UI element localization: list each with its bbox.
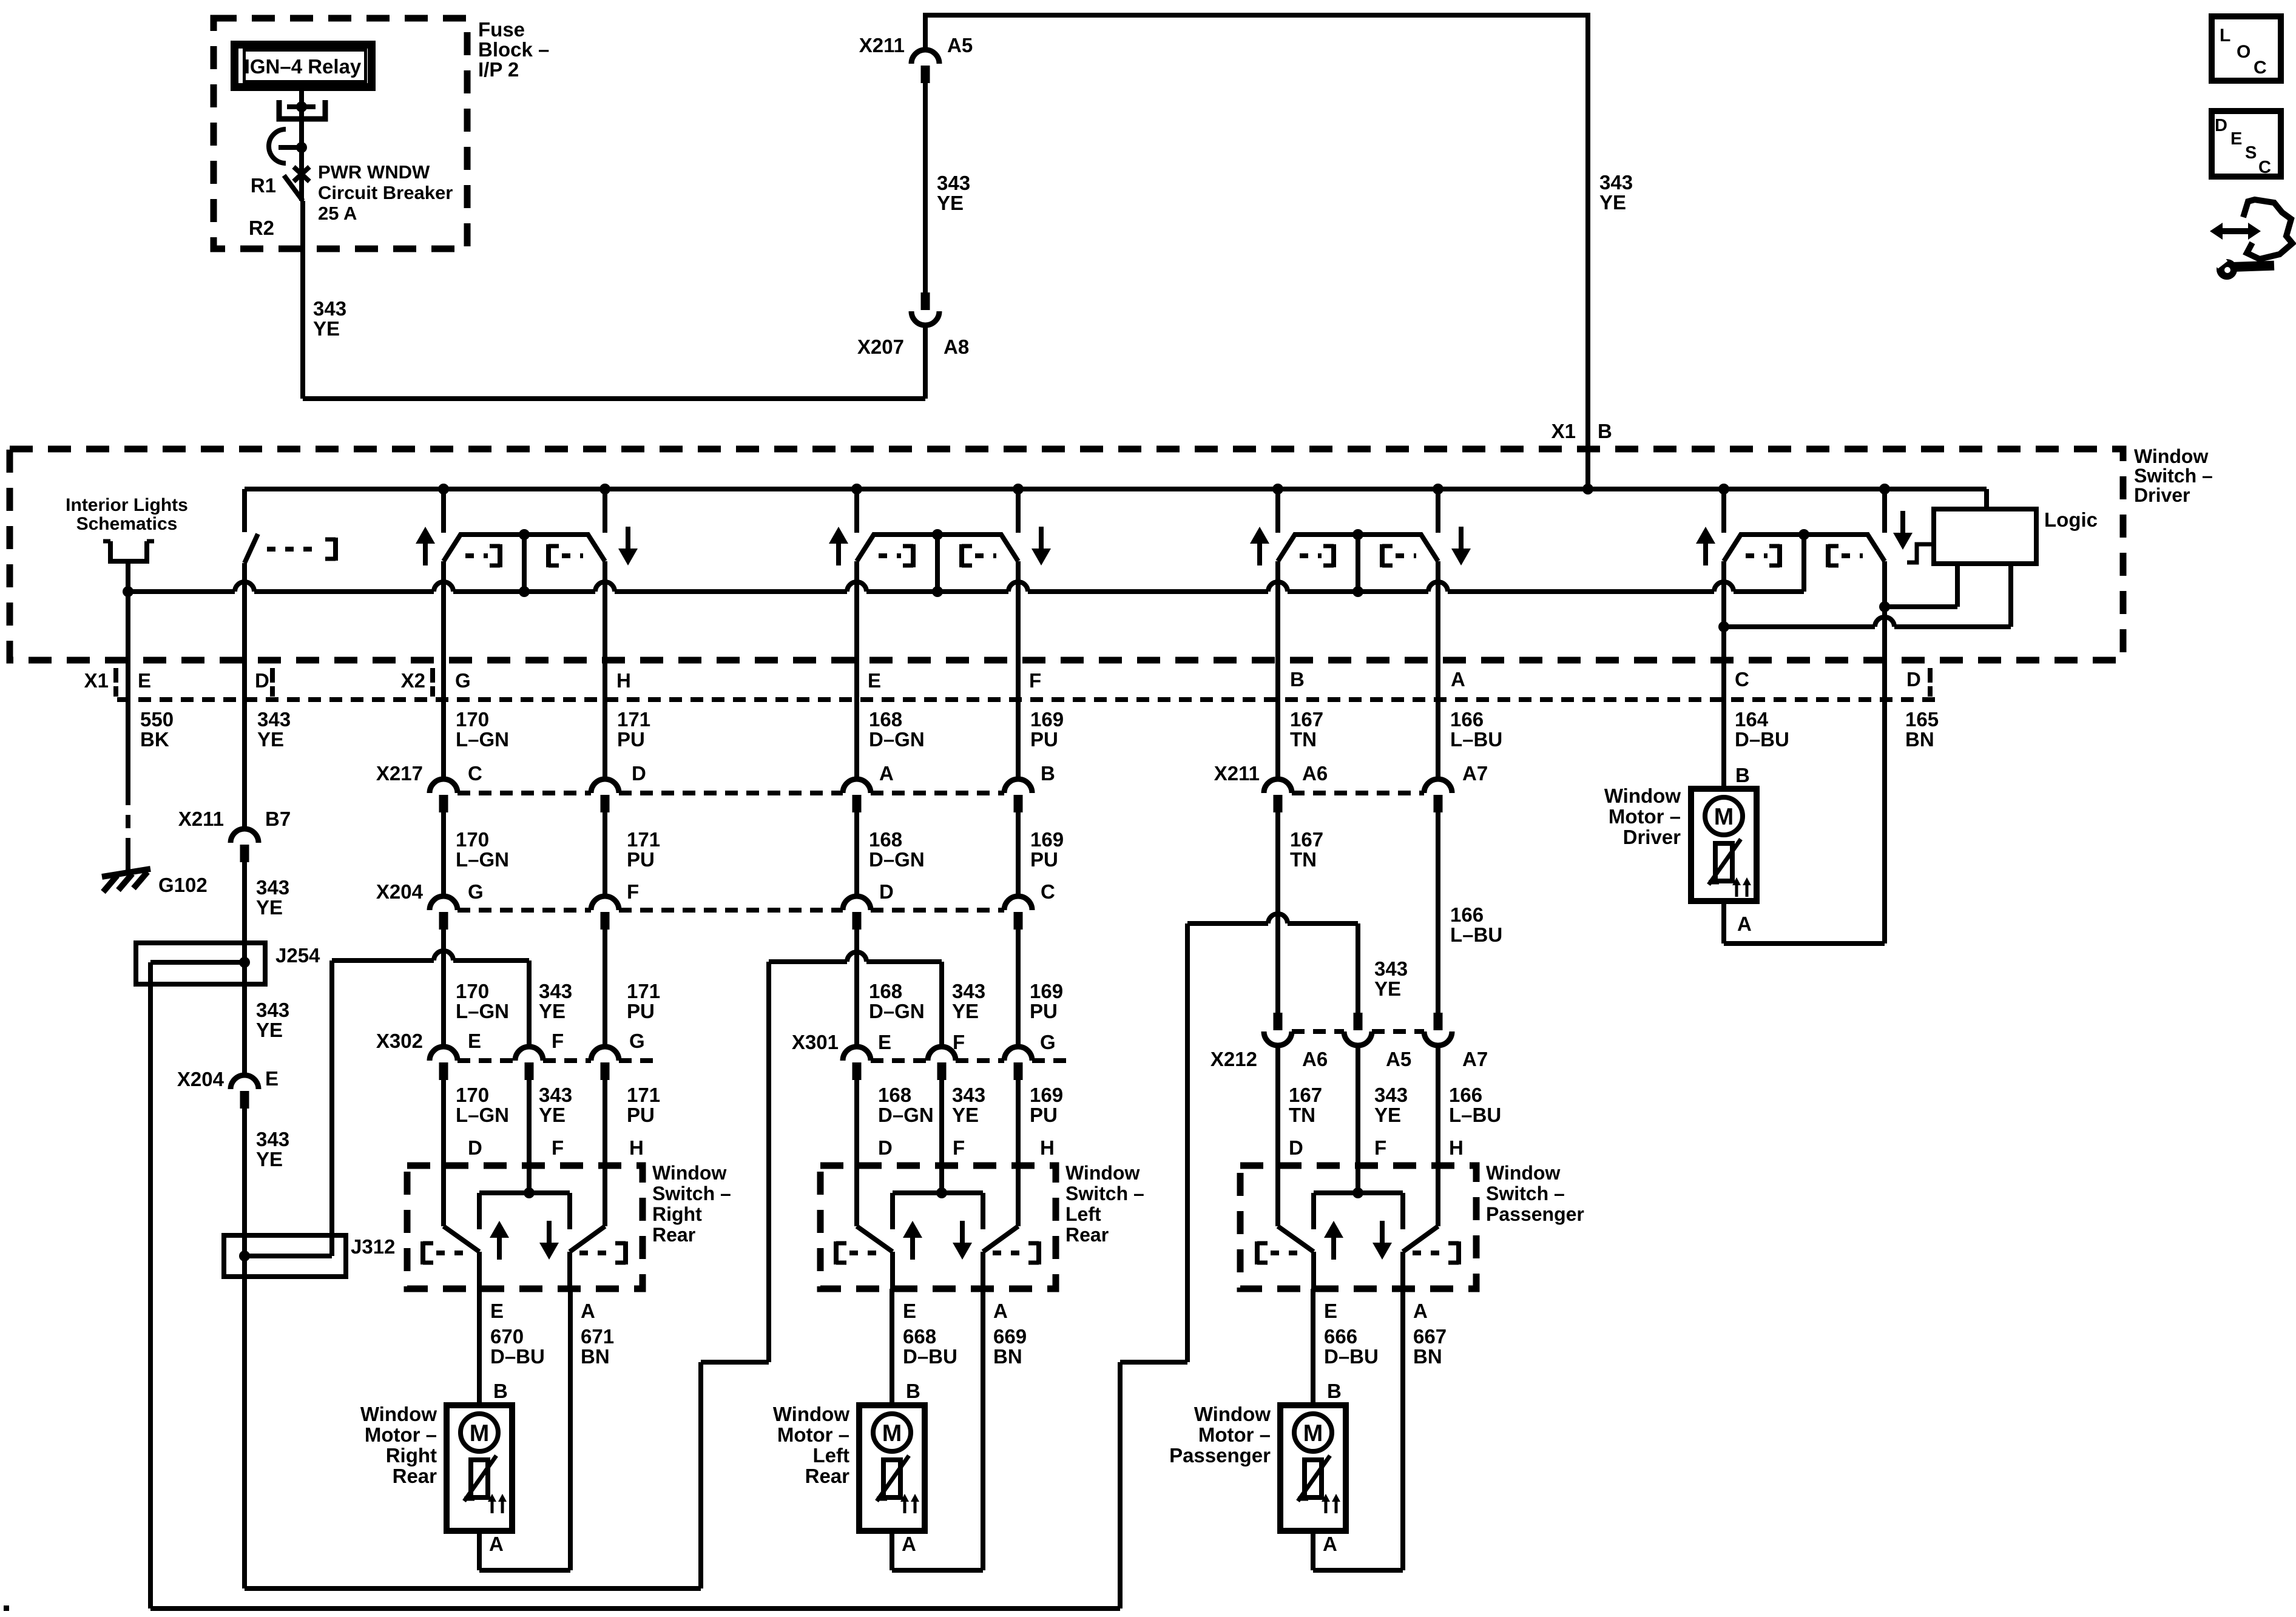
svg-text:B: B xyxy=(1735,764,1750,786)
svg-text:343: 343 xyxy=(952,1084,985,1106)
svg-text:X1: X1 xyxy=(84,669,109,692)
svg-text:Switch –: Switch – xyxy=(1065,1183,1144,1204)
svg-text:M: M xyxy=(470,1420,490,1447)
svg-text:X211: X211 xyxy=(859,34,905,56)
svg-text:YE: YE xyxy=(256,1019,283,1041)
svg-text:170: 170 xyxy=(456,980,489,1002)
svg-text:168: 168 xyxy=(878,1084,911,1106)
svg-text:Switch –: Switch – xyxy=(1486,1183,1565,1204)
svg-text:A: A xyxy=(1413,1300,1428,1322)
svg-text:Window: Window xyxy=(1194,1403,1271,1425)
svg-text:R1: R1 xyxy=(251,174,276,197)
svg-text:167: 167 xyxy=(1290,708,1323,731)
svg-text:PU: PU xyxy=(1030,728,1058,751)
svg-text:B: B xyxy=(1327,1380,1342,1402)
svg-text:Logic: Logic xyxy=(2044,508,2098,531)
svg-text:Driver: Driver xyxy=(2134,484,2190,506)
svg-text:343: 343 xyxy=(1374,1084,1408,1106)
svg-text:170: 170 xyxy=(456,828,489,851)
svg-text:X204: X204 xyxy=(177,1068,225,1090)
svg-text:C: C xyxy=(1735,668,1749,690)
svg-text:H: H xyxy=(629,1136,644,1159)
svg-text:YE: YE xyxy=(1599,191,1626,214)
svg-text:X211: X211 xyxy=(1214,762,1260,785)
svg-text:343: 343 xyxy=(539,980,572,1002)
svg-text:667: 667 xyxy=(1413,1325,1447,1348)
svg-text:Motor –: Motor – xyxy=(777,1423,849,1446)
svg-text:Window: Window xyxy=(1065,1162,1140,1184)
svg-text:E: E xyxy=(490,1300,504,1322)
svg-text:G: G xyxy=(468,880,484,903)
svg-text:D–GN: D–GN xyxy=(878,1104,934,1126)
svg-text:343: 343 xyxy=(1599,171,1633,194)
svg-text:X1: X1 xyxy=(1551,420,1576,442)
svg-text:D: D xyxy=(879,880,894,903)
svg-text:E: E xyxy=(878,1031,891,1053)
svg-text:BN: BN xyxy=(1905,728,1934,751)
svg-text:F: F xyxy=(953,1136,965,1159)
svg-text:B: B xyxy=(1290,668,1305,690)
svg-text:A: A xyxy=(993,1300,1008,1322)
svg-text:YE: YE xyxy=(1374,977,1401,1000)
svg-text:A7: A7 xyxy=(1462,762,1488,785)
svg-text:S: S xyxy=(2245,143,2257,163)
svg-text:666: 666 xyxy=(1324,1325,1357,1348)
svg-text:A: A xyxy=(581,1300,595,1322)
svg-text:C: C xyxy=(1041,880,1055,903)
svg-text:J254: J254 xyxy=(275,944,320,967)
svg-text:A: A xyxy=(1323,1533,1337,1555)
svg-text:L–BU: L–BU xyxy=(1450,923,1502,946)
svg-text:X301: X301 xyxy=(792,1031,839,1053)
svg-text:H: H xyxy=(616,669,631,692)
svg-text:M: M xyxy=(1714,804,1734,830)
svg-text:YE: YE xyxy=(539,1000,566,1022)
svg-text:E: E xyxy=(868,669,881,692)
svg-text:668: 668 xyxy=(903,1325,936,1348)
svg-text:Switch –: Switch – xyxy=(652,1183,731,1204)
svg-text:165: 165 xyxy=(1905,708,1939,731)
svg-text:PU: PU xyxy=(627,848,655,871)
svg-text:171: 171 xyxy=(627,980,660,1002)
svg-text:PU: PU xyxy=(627,1104,655,1126)
svg-text:YE: YE xyxy=(539,1104,566,1126)
svg-text:I/P 2: I/P 2 xyxy=(478,58,519,81)
svg-text:X2: X2 xyxy=(401,669,425,692)
svg-text:Schematics: Schematics xyxy=(76,514,178,534)
svg-text:IGN–4 Relay: IGN–4 Relay xyxy=(245,55,362,78)
svg-text:343: 343 xyxy=(256,999,289,1021)
svg-text:C: C xyxy=(2254,58,2267,78)
svg-text:PU: PU xyxy=(1030,848,1058,871)
svg-text:D: D xyxy=(1906,668,1921,690)
svg-text:B7: B7 xyxy=(265,808,291,830)
svg-text:E: E xyxy=(265,1067,279,1090)
svg-text:B: B xyxy=(1598,420,1612,442)
svg-text:Passenger: Passenger xyxy=(1169,1444,1271,1467)
svg-text:J312: J312 xyxy=(351,1235,395,1258)
svg-text:550: 550 xyxy=(140,708,174,731)
svg-text:Passenger: Passenger xyxy=(1486,1203,1584,1225)
svg-text:PU: PU xyxy=(1030,1104,1058,1126)
svg-text:Rear: Rear xyxy=(652,1224,695,1246)
svg-text:Motor –: Motor – xyxy=(365,1423,437,1446)
svg-text:Interior Lights: Interior Lights xyxy=(66,495,188,515)
svg-text:D–BU: D–BU xyxy=(1324,1345,1379,1368)
svg-text:167: 167 xyxy=(1289,1084,1322,1106)
svg-text:E: E xyxy=(138,669,151,692)
svg-text:A6: A6 xyxy=(1302,762,1328,785)
svg-text:Fuse: Fuse xyxy=(478,18,525,41)
svg-text:L–GN: L–GN xyxy=(456,728,509,751)
svg-text:R2: R2 xyxy=(249,217,274,239)
svg-text:Left: Left xyxy=(813,1444,850,1467)
svg-text:Switch –: Switch – xyxy=(2134,465,2213,487)
svg-text:343: 343 xyxy=(256,1128,289,1150)
svg-text:D–BU: D–BU xyxy=(1735,728,1789,751)
svg-text:TN: TN xyxy=(1290,848,1317,871)
svg-text:168: 168 xyxy=(869,828,902,851)
svg-text:X211: X211 xyxy=(178,808,224,830)
svg-text:D–GN: D–GN xyxy=(869,728,925,751)
svg-text:L–GN: L–GN xyxy=(456,1104,509,1126)
svg-text:O: O xyxy=(2237,42,2250,62)
svg-text:PU: PU xyxy=(1030,1000,1058,1022)
svg-text:Left: Left xyxy=(1065,1203,1101,1225)
svg-text:BN: BN xyxy=(993,1345,1022,1368)
svg-text:Block –: Block – xyxy=(478,38,549,61)
svg-text:343: 343 xyxy=(313,297,346,320)
svg-text:G: G xyxy=(629,1030,645,1052)
svg-text:E: E xyxy=(1324,1300,1337,1322)
svg-text:M: M xyxy=(882,1420,902,1447)
svg-text:D–GN: D–GN xyxy=(869,848,925,871)
svg-text:Circuit Breaker: Circuit Breaker xyxy=(318,182,453,203)
svg-text:H: H xyxy=(1449,1136,1464,1159)
svg-text:343: 343 xyxy=(1374,957,1408,980)
svg-text:C: C xyxy=(2258,158,2271,177)
svg-text:PWR WNDW: PWR WNDW xyxy=(318,161,430,183)
svg-text:Window: Window xyxy=(773,1403,849,1425)
svg-text:BK: BK xyxy=(140,728,169,751)
svg-text:H: H xyxy=(1040,1136,1055,1159)
svg-text:X212: X212 xyxy=(1210,1048,1257,1070)
svg-text:670: 670 xyxy=(490,1325,524,1348)
svg-text:D–BU: D–BU xyxy=(490,1345,545,1368)
svg-text:TN: TN xyxy=(1290,728,1317,751)
svg-text:343: 343 xyxy=(257,708,291,731)
svg-text:A: A xyxy=(1451,668,1465,690)
svg-text:A: A xyxy=(489,1533,504,1555)
svg-text:169: 169 xyxy=(1030,828,1064,851)
svg-text:171: 171 xyxy=(627,1084,660,1106)
svg-text:343: 343 xyxy=(937,172,970,194)
svg-text:BN: BN xyxy=(581,1345,610,1368)
svg-text:343: 343 xyxy=(256,876,289,899)
svg-text:A6: A6 xyxy=(1302,1048,1328,1070)
svg-text:166: 166 xyxy=(1449,1084,1482,1106)
svg-text:E: E xyxy=(2230,129,2242,149)
svg-text:168: 168 xyxy=(869,980,902,1002)
svg-text:25 A: 25 A xyxy=(318,203,357,224)
svg-text:X302: X302 xyxy=(376,1030,423,1052)
svg-text:YE: YE xyxy=(937,192,964,214)
svg-text:L–GN: L–GN xyxy=(456,848,509,871)
svg-text:L: L xyxy=(2220,25,2230,46)
svg-text:669: 669 xyxy=(993,1325,1027,1348)
svg-text:Rear: Rear xyxy=(393,1465,437,1487)
svg-text:A7: A7 xyxy=(1462,1048,1488,1070)
svg-text:Window: Window xyxy=(652,1162,726,1184)
svg-text:C: C xyxy=(468,762,482,785)
svg-text:Window: Window xyxy=(1486,1162,1560,1184)
svg-text:E: E xyxy=(468,1030,481,1052)
svg-text:170: 170 xyxy=(456,1084,489,1106)
svg-text:A: A xyxy=(879,762,894,785)
svg-text:L–BU: L–BU xyxy=(1450,728,1502,751)
svg-text:167: 167 xyxy=(1290,828,1323,851)
svg-text:M: M xyxy=(1303,1420,1323,1447)
svg-text:D: D xyxy=(632,762,646,785)
svg-text:D–GN: D–GN xyxy=(869,1000,925,1022)
svg-text:169: 169 xyxy=(1030,708,1064,731)
svg-text:B: B xyxy=(906,1380,920,1402)
svg-text:PU: PU xyxy=(627,1000,655,1022)
svg-text:Right: Right xyxy=(652,1203,702,1225)
svg-text:Driver: Driver xyxy=(1623,826,1681,848)
svg-text:L–BU: L–BU xyxy=(1449,1104,1501,1126)
svg-text:G: G xyxy=(1040,1031,1056,1053)
svg-text:B: B xyxy=(493,1380,508,1402)
svg-text:L–GN: L–GN xyxy=(456,1000,509,1022)
svg-text:Right: Right xyxy=(386,1444,437,1467)
svg-text:F: F xyxy=(1374,1136,1386,1159)
svg-text:YE: YE xyxy=(256,896,283,919)
svg-text:D: D xyxy=(1289,1136,1303,1159)
svg-text:A: A xyxy=(1737,913,1752,935)
svg-text:X217: X217 xyxy=(376,762,423,785)
svg-text:D: D xyxy=(878,1136,893,1159)
svg-text:F: F xyxy=(1029,669,1041,692)
svg-text:Window: Window xyxy=(360,1403,437,1425)
svg-text:D: D xyxy=(255,669,269,692)
svg-text:166: 166 xyxy=(1450,903,1484,926)
svg-text:171: 171 xyxy=(617,708,650,731)
svg-text:YE: YE xyxy=(257,728,284,751)
svg-text:Window: Window xyxy=(2134,445,2208,467)
svg-text:Motor –: Motor – xyxy=(1609,805,1681,828)
svg-text:TN: TN xyxy=(1289,1104,1315,1126)
svg-text:164: 164 xyxy=(1735,708,1769,731)
svg-text:168: 168 xyxy=(869,708,902,731)
svg-text:Rear: Rear xyxy=(805,1465,850,1487)
svg-text:YE: YE xyxy=(313,317,340,340)
svg-text:169: 169 xyxy=(1030,1084,1063,1106)
svg-text:D–BU: D–BU xyxy=(903,1345,957,1368)
svg-text:169: 169 xyxy=(1030,980,1063,1002)
svg-text:YE: YE xyxy=(952,1104,979,1126)
svg-text:Rear: Rear xyxy=(1065,1224,1109,1246)
svg-text:671: 671 xyxy=(581,1325,614,1348)
svg-text:G102: G102 xyxy=(158,874,208,896)
svg-text:Motor –: Motor – xyxy=(1198,1423,1271,1446)
svg-text:E: E xyxy=(903,1300,916,1322)
svg-text:YE: YE xyxy=(952,1000,979,1022)
svg-text:A8: A8 xyxy=(944,336,969,358)
svg-text:171: 171 xyxy=(627,828,660,851)
svg-text:PU: PU xyxy=(617,728,645,751)
svg-text:A: A xyxy=(902,1533,916,1555)
svg-text:BN: BN xyxy=(1413,1345,1442,1368)
svg-text:166: 166 xyxy=(1450,708,1484,731)
svg-text:170: 170 xyxy=(456,708,489,731)
svg-text:D: D xyxy=(468,1136,482,1159)
svg-text:343: 343 xyxy=(952,980,985,1002)
svg-text:F: F xyxy=(552,1136,564,1159)
svg-text:X204: X204 xyxy=(376,880,424,903)
svg-text:F: F xyxy=(627,880,639,903)
svg-text:A5: A5 xyxy=(947,34,973,56)
svg-text:D: D xyxy=(2215,116,2227,135)
svg-text:G: G xyxy=(455,669,471,692)
svg-text:Window: Window xyxy=(1604,785,1681,807)
svg-text:A5: A5 xyxy=(1386,1048,1411,1070)
svg-text:YE: YE xyxy=(256,1148,283,1170)
svg-text:343: 343 xyxy=(539,1084,572,1106)
svg-text:F: F xyxy=(953,1031,965,1053)
svg-text:B: B xyxy=(1041,762,1055,785)
svg-text:YE: YE xyxy=(1374,1104,1401,1126)
svg-text:F: F xyxy=(552,1030,564,1052)
svg-text:X207: X207 xyxy=(857,336,904,358)
